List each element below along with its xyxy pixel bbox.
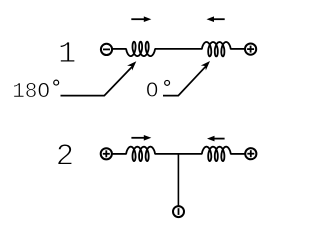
current direction arrow right (above L1)	[131, 18, 145, 20]
pointer line from 180 deg	[61, 66, 134, 96]
inductor L2 (0 deg winding)	[202, 42, 231, 56]
wire center tap	[177, 154, 179, 206]
degree ring of 180	[54, 80, 59, 85]
wire	[112, 48, 127, 50]
wire	[230, 153, 245, 155]
wire	[112, 153, 127, 155]
terminal plus left	[101, 148, 112, 159]
inductor L1 (180 deg winding)	[126, 42, 155, 56]
inductor L3	[126, 147, 155, 161]
current direction arrow right (above L3)	[131, 137, 145, 139]
pointer line from 0 deg	[163, 65, 207, 96]
wire	[155, 153, 203, 155]
arrowhead to L2	[201, 61, 210, 70]
svg-text:18O: 18O	[12, 80, 50, 104]
current direction arrow left (above L2)	[213, 18, 225, 20]
svg-text:2: 2	[56, 141, 74, 175]
wire	[230, 48, 245, 50]
degree ring of 0	[165, 80, 170, 85]
current direction arrow left (above L4)	[213, 138, 225, 140]
center tap terminal	[173, 206, 184, 217]
svg-text:1: 1	[58, 38, 76, 72]
arrowhead to L1	[127, 61, 136, 70]
inductor L4	[202, 147, 231, 161]
terminal plus	[245, 44, 256, 55]
wire	[155, 48, 203, 50]
svg-text:O: O	[146, 79, 159, 103]
terminal plus right	[245, 148, 256, 159]
terminal minus	[101, 44, 112, 55]
